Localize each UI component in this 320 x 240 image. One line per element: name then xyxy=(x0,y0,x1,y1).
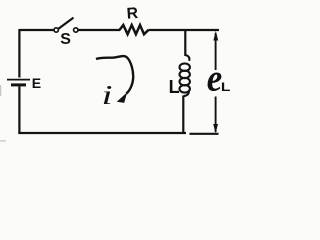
wire top-left (corner to switch) xyxy=(19,29,54,78)
wire right (corner down to inductor, inductor to bottom) xyxy=(183,29,185,133)
svg-text:L: L xyxy=(221,80,231,94)
svg-text:E: E xyxy=(32,75,41,91)
wire top-right (resistor to corner and tick to eL) xyxy=(149,29,220,31)
svg-text:R: R xyxy=(126,5,139,23)
battery E xyxy=(7,80,30,85)
wire top-middle (switch to resistor) xyxy=(78,29,120,31)
wire bottom tick to eL xyxy=(190,133,219,135)
voltage arrow eL (double-headed vertical) xyxy=(215,33,217,132)
scan smudge left edge xyxy=(0,85,1,96)
resistor R xyxy=(120,25,149,34)
svg-text:L: L xyxy=(169,77,180,97)
wire bottom xyxy=(18,132,186,134)
svg-text:i: i xyxy=(102,81,113,111)
inductor L (coil) xyxy=(180,55,190,96)
svg-text:S: S xyxy=(60,31,71,48)
current arrow i (clockwise arc) xyxy=(96,56,133,94)
wire left lower (battery to bottom corner) xyxy=(18,86,20,134)
switch S xyxy=(54,18,78,33)
